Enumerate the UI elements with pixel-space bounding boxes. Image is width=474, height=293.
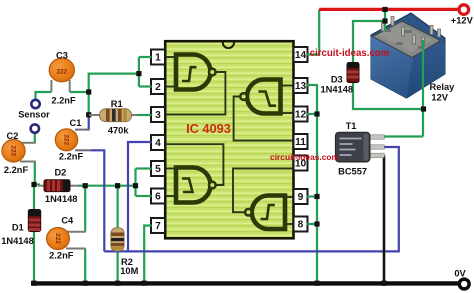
svg-text:1N4148: 1N4148	[321, 85, 354, 95]
svg-text:222: 222	[54, 233, 61, 244]
pin 7	[151, 218, 165, 233]
junction D1 at 0V rail	[31, 281, 36, 286]
pin 3	[151, 107, 165, 122]
svg-text:Relay: Relay	[429, 82, 455, 92]
pin 5	[151, 161, 165, 176]
diode D1 labels	[1, 222, 34, 245]
svg-text:11: 11	[295, 137, 306, 148]
svg-text:7: 7	[155, 221, 161, 232]
junction node D (pins 5-6 branch)	[133, 183, 138, 188]
wire D1 bottom to 0V rail	[33, 231, 35, 283]
wire node E down to R2 top	[116, 186, 118, 229]
pin 1	[151, 50, 165, 65]
svg-text:Sensor: Sensor	[18, 110, 50, 120]
svg-text:2.2nF: 2.2nF	[51, 95, 76, 105]
wire pins 5-6 tie vertical	[134, 169, 136, 197]
transistor T1 BC557	[336, 132, 385, 162]
svg-text:D2: D2	[54, 168, 66, 178]
junction C4 at 0V rail	[83, 281, 88, 286]
op-amp gate D (NAND pins 8,9 -> 10)	[245, 196, 285, 230]
wire internal gate B output to pin 11	[234, 97, 294, 141]
svg-text:D3: D3	[331, 74, 343, 84]
svg-text:4: 4	[155, 138, 161, 149]
junction pin 9 on ground bus	[314, 194, 319, 199]
junction node B (R1 left / C1 top)	[86, 112, 91, 117]
resistor R1 labels	[108, 99, 130, 135]
wire T1 collector black to 0V rail	[383, 156, 386, 283]
svg-text:5: 5	[155, 164, 161, 175]
svg-text:1: 1	[155, 53, 161, 64]
wire internal gate A inputs	[165, 57, 176, 87]
pin 2	[151, 79, 165, 94]
wire C1 bottom blue down	[91, 150, 105, 251]
svg-text:12V: 12V	[431, 93, 448, 103]
wire sensor top to C3	[36, 92, 52, 100]
svg-text:14: 14	[295, 50, 307, 61]
resistor R2	[111, 228, 124, 251]
svg-text:IC 4093: IC 4093	[186, 121, 231, 136]
0V terminal	[459, 279, 469, 289]
capacitor C2	[2, 140, 36, 162]
wire jog left to D3 branch	[353, 21, 385, 63]
wire node A up and to pins 1,2	[89, 74, 139, 93]
junction ground bus at 0V rail	[314, 281, 319, 286]
wire C2 bottom to node C	[34, 162, 36, 185]
svg-text:R1: R1	[111, 99, 123, 109]
svg-text:C2: C2	[7, 131, 19, 141]
wire D3 bottom to node F	[353, 82, 423, 109]
resistor R1	[89, 109, 138, 122]
svg-text:470k: 470k	[108, 125, 130, 135]
capacitor C1	[55, 129, 91, 151]
svg-text:222: 222	[62, 134, 69, 145]
wire blue bus to T1 base	[104, 147, 399, 251]
svg-text:13: 13	[295, 81, 307, 92]
diode D3	[347, 63, 359, 83]
wire node A down to node B (R1 left)	[88, 92, 90, 115]
diode D2	[38, 180, 79, 192]
junction on +12V rail at relay branch	[382, 7, 387, 12]
IC notch	[223, 43, 234, 49]
svg-text:3: 3	[155, 110, 161, 121]
junction node D (R2 branch)	[115, 183, 120, 188]
op-amp gate C (NAND pins 5,6 -> 4)	[176, 168, 216, 203]
wire jog down to relay coil pin 1	[384, 21, 386, 31]
wire internal gate D inputs	[285, 197, 294, 224]
+12V terminal	[459, 5, 469, 15]
svg-text:2.2nF: 2.2nF	[49, 251, 74, 261]
svg-text:BC557: BC557	[338, 166, 367, 176]
wire pin 13 down bus	[307, 85, 317, 282]
wire pins 1-2 tie vertical	[138, 57, 140, 87]
wire pin 4 blue to base net	[128, 142, 152, 251]
capacitor C3 labels	[51, 51, 76, 106]
wire C4 bottom to 0V rail	[84, 249, 86, 283]
op-amp gate B (NAND pins 12,13 -> 11)	[240, 80, 280, 114]
wire internal gate C output to pin 4	[165, 144, 223, 185]
junction node D (D2 out / C4)	[83, 183, 88, 188]
wire node B blue down to C1 top	[88, 115, 90, 130]
pin 9	[294, 189, 308, 204]
capacitor C1 labels	[59, 118, 84, 162]
wire node D down to C4	[84, 186, 86, 232]
svg-text:C1: C1	[70, 118, 82, 128]
relay K1 12V body	[371, 13, 445, 98]
svg-text:1N4148: 1N4148	[45, 194, 78, 204]
capacitor C2 labels	[4, 131, 29, 175]
svg-text:12: 12	[295, 110, 307, 121]
svg-text:2.2nF: 2.2nF	[4, 165, 29, 175]
wire pin 12 to bus	[307, 113, 317, 115]
wire node F to T1 emitter	[384, 135, 423, 137]
wire R2 bottom to 0V rail	[116, 251, 118, 282]
svg-text:0V: 0V	[454, 268, 466, 278]
wire R1 right to pin 3	[137, 114, 152, 116]
wire internal gate A output to pin 3	[165, 72, 225, 115]
svg-text:C4: C4	[61, 216, 74, 226]
resistor R2 labels	[120, 257, 138, 276]
svg-text:8: 8	[298, 220, 304, 231]
wire internal gate B inputs	[281, 86, 294, 114]
junction D3 cathode / relay coil return / T1 emitter	[421, 106, 426, 111]
junction pin 7 at 0V rail	[142, 281, 147, 286]
pin 12	[294, 107, 308, 122]
capacitor C4	[47, 228, 86, 250]
wire to pin 1	[139, 56, 152, 58]
wire pin 14 to +12V	[307, 10, 319, 55]
0V ground rail	[31, 281, 459, 285]
wire relay coil pin 2 down through node F	[422, 40, 424, 137]
junction T1 collector at 0V rail	[381, 281, 386, 286]
svg-text:222: 222	[56, 69, 67, 76]
junction relay coil / D3 branch	[382, 18, 387, 23]
sensor terminal bottom	[31, 124, 39, 132]
wire C3 right lead to node A	[70, 91, 89, 93]
wire node C to D1 top	[33, 185, 35, 211]
wire D2 right to pins 5-6 node	[78, 185, 136, 187]
capacitor C3	[49, 58, 74, 92]
svg-text:T1: T1	[346, 121, 357, 131]
svg-text:10M: 10M	[120, 266, 138, 276]
wire internal gate C inputs	[165, 169, 176, 197]
wire pin 7 to 0V rail	[144, 226, 151, 283]
capacitor C4 labels	[49, 216, 74, 261]
wire internal gate D output to pin 10	[233, 169, 294, 213]
wire node C to D2 left	[34, 183, 40, 185]
diode D2 labels	[45, 168, 78, 204]
junction pin 12 on ground bus	[314, 111, 319, 116]
pin 4	[151, 135, 165, 150]
junction node C (C2 / D1 / D2)	[31, 182, 36, 187]
svg-text:222: 222	[9, 145, 16, 156]
wire to pin 6	[136, 195, 152, 197]
transistor T1 labels	[338, 121, 367, 177]
pin 10	[294, 156, 308, 171]
wire +12V red rail	[319, 8, 457, 11]
svg-text:+12V: +12V	[451, 15, 474, 25]
svg-text:circuit-ideas.com: circuit-ideas.com	[310, 48, 390, 59]
svg-text:C3: C3	[56, 51, 68, 61]
svg-text:1N4148: 1N4148	[1, 236, 34, 246]
svg-text:circuit-ideas.com: circuit-ideas.com	[270, 152, 339, 162]
pin 6	[151, 189, 165, 204]
wire to pin 2	[139, 85, 152, 87]
wire sensor bottom down to C2	[34, 133, 36, 143]
junction node A (C3 / pins 1-2 / R1)	[86, 89, 91, 94]
wire to pin 5	[136, 167, 152, 169]
sensor terminal top	[31, 100, 39, 108]
pin 8	[294, 217, 308, 232]
svg-text:2.2nF: 2.2nF	[59, 152, 84, 162]
junction pin 8 on ground bus	[314, 221, 319, 226]
svg-text:9: 9	[298, 192, 304, 203]
diode D1	[28, 210, 40, 232]
wire +12V dot down to jog	[384, 10, 386, 22]
svg-text:2: 2	[155, 82, 161, 93]
diode D3 labels	[321, 74, 354, 94]
junction pins 1-2 tie	[136, 71, 141, 76]
pin 14	[294, 47, 308, 62]
wire pin 9 to bus	[307, 195, 317, 197]
pin 13	[294, 78, 308, 93]
junction R2 at 0V rail	[115, 281, 120, 286]
relay label	[429, 82, 455, 103]
pin 11	[294, 134, 308, 149]
svg-text:D1: D1	[12, 222, 24, 232]
op-amp gate A (NAND pins 1,2 -> 3)	[176, 55, 216, 90]
svg-text:6: 6	[155, 192, 161, 203]
wire pin 8 to bus	[307, 223, 317, 225]
IC U1 body (IC 4093)	[165, 41, 293, 238]
